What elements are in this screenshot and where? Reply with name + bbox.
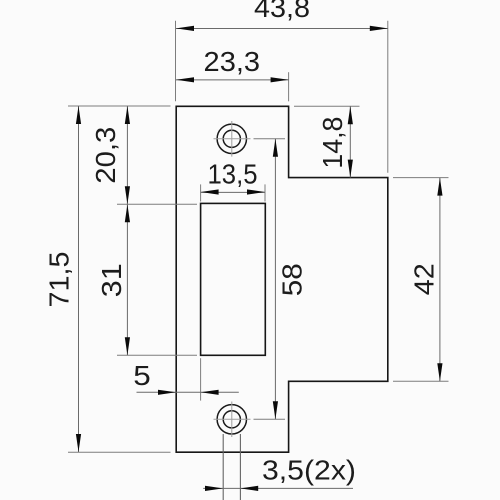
- latch cutout: [201, 203, 266, 355]
- hole top inner: [223, 130, 240, 147]
- dim 3,5 ext left: [222, 434, 224, 500]
- dim 3,5 ext right: [239, 434, 241, 500]
- dim 23,3 arrow right: [271, 77, 289, 82]
- dim 31 line: [126, 204, 128, 355]
- dim 3,5 arrow right: [240, 486, 258, 491]
- dim 13,5 line: [201, 191, 265, 193]
- hole top outer: [217, 124, 246, 153]
- dim 43,8 line: [176, 28, 388, 30]
- hole bottom outer: [217, 405, 246, 434]
- dim 3,5 line: [203, 487, 353, 489]
- dim 13,5 ext left: [200, 184, 202, 201]
- dim 42 ext top: [393, 177, 449, 179]
- plate outline: [176, 106, 388, 452]
- dim 43,8 arrow right: [370, 26, 388, 31]
- hole bottom crosshair v: [231, 402, 233, 438]
- dim 43,8 arrow left: [176, 26, 194, 31]
- hole top center ext: [254, 138, 286, 140]
- dim 43,8 ext left: [175, 21, 177, 102]
- dim 42 arrow bottom: [437, 363, 442, 381]
- svg-text:13,5: 13,5: [208, 159, 258, 190]
- dim 71,5 ext top: [68, 105, 171, 107]
- svg-text:42: 42: [409, 263, 440, 295]
- dim 5 line: [137, 391, 239, 393]
- dim 31 ext bottom: [117, 354, 197, 356]
- dim 31 ext top: [117, 203, 197, 205]
- dim 42 arrow top: [437, 178, 442, 196]
- dim 13,5 arrow right: [247, 189, 265, 194]
- dim 71,5 arrow bottom: [76, 434, 81, 452]
- dim 58 arrow bottom: [273, 401, 278, 419]
- svg-text:5: 5: [133, 360, 151, 391]
- dim 43,8 ext right: [387, 21, 389, 173]
- svg-text:71,5: 71,5: [44, 252, 75, 308]
- dim 14,8 line: [349, 106, 351, 177]
- dim 20,3 line: [126, 106, 128, 204]
- hole bottom center ext: [254, 418, 286, 420]
- svg-text:23,3: 23,3: [204, 46, 261, 77]
- dim 23,3 arrow left: [176, 77, 194, 82]
- dim 20,3 arrow top: [125, 106, 130, 124]
- dim 14,8 arrow top: [348, 106, 353, 124]
- dim 42 ext bottom: [393, 380, 449, 382]
- svg-text:58: 58: [277, 263, 308, 296]
- dim 58 line: [274, 139, 276, 420]
- svg-text:20,3: 20,3: [90, 127, 121, 184]
- dim 14,8 arrow bottom: [348, 160, 353, 178]
- dim 13,5 ext right: [264, 184, 266, 201]
- dim 31 arrow bottom: [125, 337, 130, 355]
- dim 58 arrow top: [273, 139, 278, 157]
- svg-text:3,5(2x): 3,5(2x): [262, 455, 356, 486]
- dim 3,5 arrow left: [205, 486, 223, 491]
- dim 23,3 line: [176, 79, 289, 81]
- hole bottom crosshair h: [214, 418, 251, 420]
- dim 31 arrow top: [125, 204, 130, 222]
- dim 71,5 ext bottom: [68, 451, 171, 453]
- dim 14,8 ext top: [294, 105, 360, 107]
- dim 23,3 ext right: [288, 72, 290, 101]
- dim 5 arrow left: [158, 390, 176, 395]
- dim 13,5 arrow left: [201, 189, 219, 194]
- svg-text:14,8: 14,8: [317, 117, 348, 169]
- dim 5 arrow right: [201, 390, 219, 395]
- svg-text:43,8: 43,8: [254, 0, 310, 23]
- svg-text:31: 31: [96, 263, 127, 297]
- dim 71,5 arrow top: [76, 106, 81, 124]
- dim 42 line: [439, 178, 441, 382]
- dim 71,5 line: [78, 106, 80, 452]
- dim 5 ext: [200, 358, 202, 400]
- dim 20,3 arrow bottom: [125, 186, 130, 204]
- hole top crosshair v: [231, 121, 233, 157]
- hole bottom inner: [223, 411, 240, 428]
- hole top crosshair h: [214, 138, 251, 140]
